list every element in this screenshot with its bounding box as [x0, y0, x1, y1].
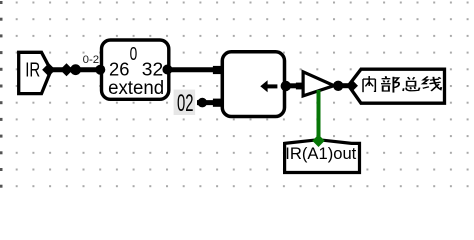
left arrow inside shifter	[260, 80, 267, 92]
shifter input stub top	[213, 66, 221, 74]
glyph 总	[403, 77, 419, 91]
svg-text:02: 02	[177, 90, 194, 117]
shifter input stub bottom	[213, 99, 221, 107]
wire buffer to tunnel	[338, 83, 351, 88]
tunnel IR	[19, 52, 56, 93]
controlled buffer U3	[303, 72, 334, 96]
wire shifter to buffer	[286, 83, 300, 88]
wire extender to shifter	[167, 67, 218, 72]
wire constant to shifter	[197, 100, 218, 105]
nib at tunnel point	[347, 80, 358, 91]
svg-text:IR: IR	[25, 59, 40, 82]
wire IR tunnel to extender	[48, 67, 101, 72]
tunnel 内部总线	[349, 69, 445, 103]
svg-text:32: 32	[142, 58, 163, 79]
extender output pin dot	[162, 65, 172, 75]
buffer output dot	[333, 81, 343, 91]
constant output dot	[198, 98, 208, 108]
extender input pin dot	[95, 65, 105, 75]
bit extender U1	[102, 40, 169, 99]
glyph 线	[423, 76, 441, 91]
shifter output dot	[281, 81, 291, 91]
svg-text:0-2: 0-2	[83, 54, 100, 66]
glyph 部	[381, 76, 399, 92]
junction dot	[60, 63, 73, 76]
left edge grid marks	[0, 1, 3, 188]
glyph 内	[363, 76, 375, 92]
green nib at tunnel point	[312, 135, 324, 147]
svg-text:IR(A1)out: IR(A1)out	[285, 144, 356, 163]
constant 02	[174, 90, 196, 117]
svg-text:extend: extend	[108, 78, 164, 99]
buffer input pin	[296, 83, 303, 90]
svg-text:26: 26	[109, 58, 129, 79]
svg-text:0: 0	[130, 43, 138, 64]
junction dot	[70, 64, 81, 75]
enable wire (green)	[317, 90, 321, 140]
tunnel IR(A1)out	[285, 140, 360, 173]
shifter U2	[222, 52, 284, 117]
